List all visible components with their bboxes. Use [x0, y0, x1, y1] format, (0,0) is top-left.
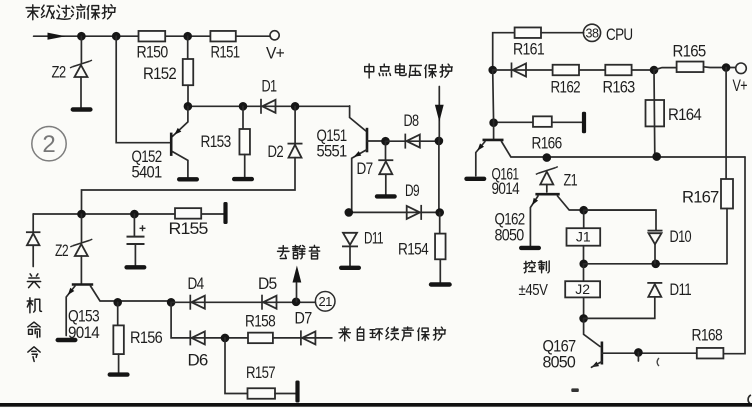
wire R167 bottom to mid rail: [726, 209, 728, 264]
wire cap top: [133, 214, 135, 236]
wire D2 top: [294, 106, 296, 143]
wire D9 rail: [349, 211, 440, 213]
ground under Q161: [464, 177, 486, 181]
svg-text:Z2: Z2: [52, 64, 66, 82]
node N D4/D6 branch: [167, 299, 175, 307]
wire J1 top: [583, 210, 585, 228]
ground under R156: [108, 372, 130, 376]
svg-text:R167: R167: [682, 189, 719, 207]
wire Q161 collector: [502, 142, 746, 158]
wire Q167 base: [584, 318, 600, 346]
wire R157 branch: [225, 338, 248, 394]
node B top-rail/Q152-base branch: [112, 32, 120, 40]
wire node Q down to node T: [492, 70, 495, 123]
transistor Q161 base bar: [483, 139, 504, 142]
svg-text:R158: R158: [245, 313, 276, 331]
label 末级过流保护 (final-stage overcurrent protection): [26, 4, 115, 19]
wire stub below node AA: [637, 352, 639, 361]
wire node G to node H: [386, 140, 439, 142]
svg-text:R168: R168: [692, 327, 723, 345]
ground under Q152: [177, 177, 199, 181]
wire R156 to ground: [118, 354, 120, 372]
wire Q162 emitter: [530, 196, 538, 246]
wire R154 to ground: [439, 259, 441, 282]
wire Q152 emitter from node D: [172, 106, 188, 136]
svg-text:J1: J1: [576, 229, 591, 245]
node I D11 junction: [345, 209, 353, 217]
resistor R151: [210, 31, 235, 42]
node W J1 top junction: [580, 206, 588, 214]
svg-text:9014: 9014: [68, 324, 100, 342]
wire Z2 lower to Q153 base: [80, 256, 82, 283]
svg-text:D5: D5: [258, 275, 277, 293]
resistor R163: [605, 65, 631, 76]
svg-text:V+: V+: [266, 45, 284, 63]
svg-text:D8: D8: [404, 112, 419, 130]
wire Z2 to ground: [80, 77, 82, 108]
wire mid rail to Q151 collector: [350, 106, 366, 131]
node E R153 junction: [239, 103, 247, 111]
svg-text:J2: J2: [575, 281, 590, 297]
wire Q152 collector to ground: [172, 152, 188, 178]
resistor R167: [721, 179, 733, 209]
svg-text:R154: R154: [398, 241, 429, 259]
ground under R154: [429, 282, 452, 286]
diode D8: [405, 134, 420, 149]
arrowhead Q162 emitter (NPN): [532, 198, 538, 205]
wire R152 bottom to mid rail: [187, 85, 189, 106]
arrowhead midpoint-protect: [435, 105, 444, 122]
svg-text:R150: R150: [137, 44, 169, 62]
node Z Q167 base junction: [580, 315, 588, 323]
svg-text:R163: R163: [603, 79, 636, 97]
wire R153 top: [242, 106, 244, 129]
svg-text:CPU: CPU: [606, 26, 633, 44]
callout circle 21: [315, 292, 335, 312]
svg-text:9014: 9014: [492, 180, 520, 198]
wire Q151 base to node G: [367, 140, 386, 142]
label 中点电压保护 (midpoint voltage protection): [365, 64, 453, 78]
diode before R162: [512, 63, 527, 78]
diode D4: [190, 295, 205, 310]
diode D10: [648, 231, 663, 245]
callout circle 2: [32, 127, 66, 161]
svg-text:D9: D9: [405, 182, 419, 200]
resistor R155: [175, 208, 201, 219]
terminal circle 38: [583, 24, 600, 41]
svg-text:D11: D11: [670, 281, 692, 299]
diode D1: [261, 99, 276, 114]
relay contact J1: [567, 228, 601, 246]
zener Z2 upper: [70, 60, 92, 77]
svg-text:R162: R162: [551, 79, 581, 97]
node J R154 junction: [436, 209, 444, 217]
wire cap to ground: [134, 244, 136, 265]
wire R161 to CPU circle: [541, 32, 584, 34]
resistor R165: [677, 62, 704, 73]
label 控制 (control): [524, 261, 549, 273]
transistor Q151 base bar: [366, 128, 369, 153]
wire R156 top: [117, 302, 119, 325]
node AA R168 junction: [635, 349, 643, 357]
svg-text:Z1: Z1: [564, 172, 578, 190]
diode D7 surround: [301, 330, 316, 345]
node V R164-rail junction: [653, 153, 661, 161]
diode D11 right: [647, 283, 662, 297]
svg-text:D10: D10: [670, 228, 692, 246]
wire D10 top: [584, 210, 656, 230]
node M R156 junction: [114, 299, 122, 307]
svg-text:D7: D7: [357, 160, 374, 178]
wire J2 bottom: [583, 297, 585, 318]
svg-text:R151: R151: [211, 44, 240, 62]
svg-text:5551: 5551: [317, 143, 348, 161]
node X mid junction left: [580, 260, 588, 268]
wire Q153 emitter: [66, 286, 75, 336]
resistor R156: [113, 325, 124, 354]
svg-text:8050: 8050: [495, 227, 525, 245]
transistor Q153 base bar: [72, 283, 93, 286]
wire midpoint-protect arrow shaft: [438, 87, 440, 141]
wire Q162 collector: [558, 196, 657, 210]
node Q R161/R162 junction: [489, 66, 497, 74]
wire to R165: [654, 68, 677, 70]
wire Q153 collector: [91, 286, 172, 301]
terminal V+ left: [270, 31, 279, 40]
node R R163/R164/R165 junction: [650, 66, 658, 74]
resistor R166: [533, 116, 552, 127]
arrowhead Q167 emitter (NPN): [592, 362, 600, 368]
ground under Z2 upper: [71, 107, 93, 111]
node L lower rail/cap: [131, 210, 139, 218]
resistor R157: [248, 388, 276, 399]
resistor R161: [515, 27, 541, 38]
node G Q151 base junction: [382, 137, 390, 145]
diode D9: [407, 205, 422, 220]
wire Q161 emitter: [476, 142, 485, 176]
ground under Q162: [519, 246, 541, 250]
wire R167 top from V+: [725, 68, 727, 180]
diode D6: [190, 330, 205, 345]
node F D2 junction: [291, 103, 299, 111]
wire node N down to D6 rail: [171, 302, 332, 338]
capacitor C+ electrolytic: [127, 225, 146, 244]
node H mid-protect junction: [435, 137, 443, 145]
diode D2: [288, 144, 303, 158]
wire R157 to bar: [275, 393, 295, 395]
svg-text:R157: R157: [246, 364, 275, 382]
ground under R153: [232, 177, 254, 181]
wire mute arrow shaft: [296, 283, 298, 302]
svg-text:R164: R164: [668, 106, 702, 124]
svg-text:2: 2: [42, 131, 55, 158]
arrowhead Q161 emitter (NPN): [477, 143, 484, 150]
label 来自环绕声保护 (from surround protection): [339, 327, 446, 341]
resistor R168: [697, 348, 724, 359]
label 关机命令 (shutdown command) vertical: [27, 274, 41, 362]
arrowhead Q153 emitter (NPN): [68, 288, 75, 295]
wire right rail down to R168: [723, 157, 745, 354]
terminal bar after R157: [295, 381, 299, 403]
node C R150/R152 junction: [184, 32, 192, 40]
transistor Q162 base bar: [535, 193, 559, 196]
arrowhead mute: [293, 266, 302, 283]
svg-text:R156: R156: [130, 329, 163, 347]
wire R164 through: [653, 70, 656, 157]
wire J1 bottom: [583, 246, 585, 264]
wire R154 top: [439, 213, 441, 234]
transistor Q167 base bar: [601, 342, 604, 365]
wire Q167 emitter stub: [592, 362, 602, 368]
svg-text:D4: D4: [188, 275, 205, 293]
svg-text:Z2: Z2: [55, 242, 68, 260]
wire Z2 lower top: [81, 214, 83, 242]
artifact small mark under Q167: [571, 388, 579, 392]
node K lower rail/Z2: [78, 210, 86, 218]
svg-text:R166: R166: [532, 135, 563, 153]
artifact partial glyph bottom right corner: [748, 395, 751, 404]
node D R152/mid-rail: [184, 103, 192, 111]
wire node B down and to Q152 base: [116, 36, 169, 143]
svg-text:5401: 5401: [132, 164, 163, 182]
resistor R150: [139, 31, 166, 42]
diode shutdown-cmd: [26, 232, 41, 245]
svg-text:D7: D7: [295, 310, 313, 328]
diode D11 shunt: [342, 233, 358, 247]
scan border bottom band: [0, 403, 752, 407]
node T Q161 base junction: [490, 119, 498, 127]
resistor R152: [183, 59, 194, 85]
wire R161 branch: [493, 33, 515, 70]
svg-text:D2: D2: [268, 143, 284, 161]
transistor Q152 base bar: [170, 133, 173, 156]
wire Q167 collector: [602, 352, 697, 354]
svg-text:V+: V+: [733, 77, 748, 95]
zener Z1: [536, 167, 558, 185]
svg-text:R165: R165: [673, 43, 707, 61]
wire J2 top: [583, 264, 585, 281]
diode D7 shunt: [378, 160, 393, 174]
ground under Q153: [56, 338, 78, 342]
wire Q161 base: [493, 123, 495, 139]
relay contact J2: [565, 281, 600, 297]
svg-text:38: 38: [586, 26, 599, 40]
wire lower-left rail: [33, 213, 223, 215]
wire D7 top: [385, 141, 387, 160]
node U Z1 junction: [543, 154, 551, 162]
wire R153 to ground: [244, 155, 246, 177]
arrowhead Q152 emitter (PNP): [174, 128, 181, 135]
resistor R154: [435, 234, 446, 260]
svg-text:R161: R161: [513, 41, 545, 59]
svg-text:8050: 8050: [543, 354, 576, 372]
diode D5: [262, 295, 277, 310]
wire Q151 emitter down: [352, 150, 367, 213]
node S V+ junction: [722, 64, 730, 72]
wire Z2 top branch: [80, 36, 82, 63]
terminal bar after R166: [582, 112, 586, 134]
artifact partial glyph right of node AA: [657, 358, 659, 366]
wire R166 rail: [494, 121, 582, 123]
wire left diode branch: [32, 214, 34, 232]
wire D11 bottom: [584, 297, 655, 319]
resistor R158: [248, 333, 273, 344]
svg-text:D11: D11: [364, 230, 383, 248]
resistor R162: [553, 65, 579, 76]
svg-text:D1: D1: [262, 78, 277, 96]
label 去静音 (to mute): [278, 245, 320, 259]
wire D7 to ground: [385, 174, 387, 194]
terminal bar after R155: [223, 202, 227, 224]
wire node H down to node J: [438, 141, 440, 213]
wire D4-D5 rail: [171, 301, 315, 303]
wire below left diode: [32, 246, 34, 267]
wire D10 to node Y: [654, 244, 656, 264]
wire top rail: [34, 35, 271, 37]
zener Z2 lower: [70, 239, 92, 256]
wire D11 to ground: [349, 247, 351, 266]
arrowhead Q151 emitter (NPN): [354, 151, 362, 157]
node P R157 branch: [221, 334, 229, 342]
node Y mid junction right: [652, 260, 660, 268]
ground under capacitor: [124, 265, 146, 269]
svg-text:R152: R152: [143, 65, 177, 83]
svg-text:±45V: ±45V: [519, 282, 549, 299]
wire R152 top: [187, 36, 189, 59]
resistor R153: [239, 129, 250, 155]
wire D2 bottom loop to lower-left rail: [82, 158, 296, 214]
svg-text:R153: R153: [201, 133, 232, 151]
node A top-rail/Z2: [78, 32, 86, 40]
wire Z1 to Q162 base: [546, 185, 548, 193]
ground under D11: [339, 266, 361, 270]
wire mid-right rail: [584, 263, 727, 265]
terminal V+ right: [736, 63, 747, 74]
node O mute junction: [292, 298, 300, 306]
arrow input left: [48, 33, 66, 40]
resistor R164: [646, 100, 665, 126]
svg-text:R155: R155: [169, 220, 209, 238]
svg-text:D6: D6: [188, 352, 209, 370]
ground under D7: [375, 194, 397, 198]
svg-text:21: 21: [318, 294, 332, 309]
svg-text:Q153: Q153: [68, 308, 100, 326]
wire R162 rail: [493, 69, 654, 71]
wire R165 to V+ node: [704, 66, 736, 69]
wire mid rail: [188, 105, 350, 107]
